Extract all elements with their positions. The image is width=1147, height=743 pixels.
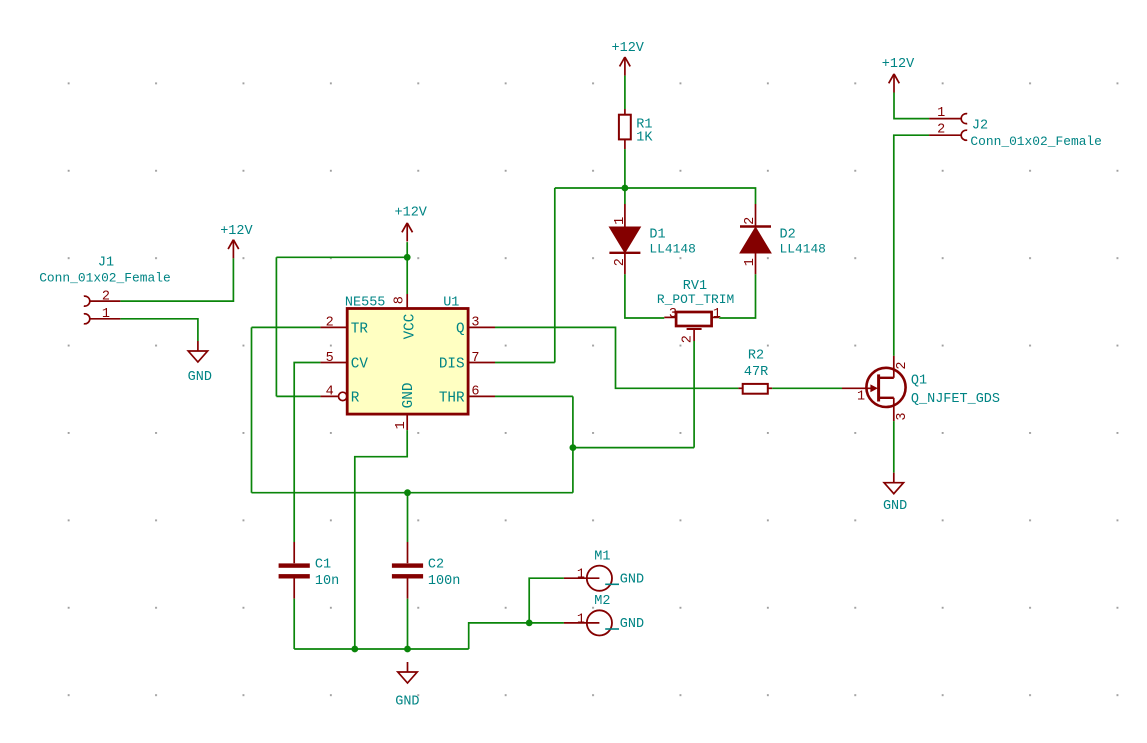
- wire THR pin: [495, 395, 573, 397]
- svg-text:47R: 47R: [744, 365, 768, 380]
- svg-text:3: 3: [895, 412, 910, 420]
- ground (below Q1): [884, 473, 903, 494]
- resistor R1: [619, 109, 631, 149]
- svg-text:Q1: Q1: [911, 374, 927, 389]
- svg-text:C1: C1: [315, 557, 331, 572]
- junction (VCC node): [404, 254, 411, 261]
- svg-text:NE555: NE555: [345, 296, 386, 311]
- wire R1 to node: [624, 149, 626, 188]
- capacitor C2: [392, 542, 423, 599]
- transistor Q1: [842, 356, 906, 421]
- +12V power symbol (center): [402, 223, 413, 242]
- wire RV1.2 wiper down: [693, 341, 695, 448]
- wire J1.1 to ground: [120, 319, 197, 341]
- svg-text:GND: GND: [188, 370, 212, 385]
- wire D1 to RV1.3: [625, 274, 664, 318]
- svg-text:R2: R2: [748, 349, 764, 364]
- wire U1 pin1 to ground bus: [355, 430, 407, 649]
- svg-text:2: 2: [743, 217, 758, 225]
- wire bottom run: [252, 492, 573, 494]
- resistor R2: [738, 384, 772, 394]
- svg-text:LL4148: LL4148: [649, 242, 695, 257]
- svg-text:1: 1: [857, 389, 865, 404]
- svg-text:C2: C2: [428, 557, 444, 572]
- svg-text:1K: 1K: [636, 131, 653, 146]
- svg-text:1: 1: [713, 307, 721, 322]
- junction (C2 ground): [404, 646, 411, 653]
- svg-text:1: 1: [577, 612, 585, 627]
- wire R2 to Q1 gate: [772, 387, 842, 389]
- svg-text:Conn_01x02_Female: Conn_01x02_Female: [39, 271, 171, 286]
- svg-text:2: 2: [895, 361, 910, 369]
- +12V power symbol (left): [228, 240, 239, 259]
- capacitor C1: [279, 542, 310, 599]
- mounting hole M1: [564, 566, 612, 591]
- svg-text:2: 2: [326, 316, 334, 331]
- wire J1.2 to +12V corner: [120, 258, 233, 301]
- svg-text:+12V: +12V: [612, 41, 645, 56]
- wire Q1 drain to J2.2: [894, 135, 929, 356]
- connector J1 pin 2 stub: [90, 300, 121, 302]
- svg-text:D1: D1: [649, 228, 665, 243]
- mounting hole M2: [564, 610, 612, 635]
- svg-text:8: 8: [393, 296, 408, 304]
- svg-text:VCC: VCC: [403, 314, 419, 340]
- svg-text:J2: J2: [972, 119, 988, 134]
- U1 pin 2 (TR): [320, 316, 368, 338]
- svg-text:M2: M2: [594, 594, 610, 609]
- svg-text:10n: 10n: [315, 574, 339, 589]
- wire C2 to ground bus: [407, 599, 409, 649]
- wire C2 branch: [407, 493, 409, 542]
- ground (below C2): [398, 662, 417, 683]
- U1 pin 6 (THR): [439, 385, 495, 407]
- svg-text:1: 1: [937, 106, 945, 121]
- svg-text:6: 6: [471, 385, 479, 400]
- U1 pin 3 (Q): [456, 316, 495, 338]
- +12V power symbol (right): [889, 74, 900, 93]
- label _GND (M2): [605, 617, 644, 632]
- connector J2 pin 2 stub: [929, 134, 961, 136]
- svg-text:+12V: +12V: [395, 206, 428, 221]
- svg-text:2: 2: [102, 289, 110, 304]
- svg-text:DIS: DIS: [439, 357, 465, 373]
- svg-text:GND: GND: [620, 573, 644, 588]
- svg-text:Conn_01x02_Female: Conn_01x02_Female: [970, 134, 1102, 149]
- wire ground bus to M2: [469, 623, 564, 649]
- wire M1 branch: [529, 578, 564, 623]
- wire VCC to R pin: [276, 395, 320, 397]
- wire +12V to U1 pin 8: [406, 242, 408, 294]
- wire Q pin to R2: [495, 327, 738, 388]
- svg-text:GND: GND: [401, 383, 417, 409]
- potentiometer RV1: [664, 312, 719, 341]
- wire C1 to ground bus: [293, 599, 295, 649]
- connector J2 pin 1 socket arc: [961, 114, 967, 124]
- wire THR riser: [572, 396, 574, 492]
- connector J2 pin 1 stub: [929, 118, 961, 120]
- U1 pin 5 (CV): [320, 351, 368, 373]
- svg-text:+12V: +12V: [220, 224, 253, 239]
- svg-text:7: 7: [471, 351, 479, 366]
- svg-text:3: 3: [471, 316, 479, 331]
- connector J2 pin 2 socket arc: [961, 130, 967, 140]
- wire wiper to THR riser: [573, 447, 694, 449]
- svg-text:LL4148: LL4148: [780, 242, 826, 257]
- svg-text:M1: M1: [594, 549, 610, 564]
- svg-text:2: 2: [937, 123, 945, 138]
- junction (C1 ground): [351, 646, 358, 653]
- svg-text:TR: TR: [351, 322, 369, 338]
- svg-text:R_POT_TRIM: R_POT_TRIM: [657, 292, 734, 307]
- svg-text:1: 1: [743, 258, 758, 266]
- op-amp U1 NE555 body: [347, 309, 468, 415]
- svg-text:GND: GND: [395, 694, 419, 709]
- connector J1 pin 1 socket arc: [84, 314, 90, 324]
- wire D2 to RV1.1: [719, 274, 755, 318]
- svg-text:U1: U1: [443, 296, 459, 311]
- U1 pin 1 (GND): [394, 383, 417, 431]
- ground (below J1): [188, 341, 207, 362]
- svg-text:2: 2: [680, 335, 695, 343]
- junction (R1/D1/D2/DIS node): [622, 185, 629, 192]
- wire VCC branch left: [276, 256, 407, 258]
- svg-text:Q_NJFET_GDS: Q_NJFET_GDS: [911, 392, 1000, 407]
- +12V power symbol (top): [620, 57, 631, 76]
- svg-text:1: 1: [613, 217, 628, 225]
- wire +12V to R1: [624, 76, 626, 109]
- wire node to D2: [625, 188, 756, 204]
- svg-text:GND: GND: [883, 499, 907, 514]
- svg-text:4: 4: [326, 385, 334, 400]
- U1 pin 4 (R, inverted): [320, 385, 359, 407]
- wire CV to C1: [294, 363, 320, 543]
- U1 pin 7 (DIS): [439, 351, 495, 373]
- svg-text:Q: Q: [456, 322, 465, 338]
- junction (C2 top node): [404, 489, 411, 496]
- U1 pin 8 (VCC): [393, 294, 419, 339]
- wire riser to DIS pin: [495, 362, 555, 364]
- wire TR pin left: [252, 326, 321, 328]
- wire node to DIS riser: [555, 187, 625, 189]
- svg-text:1: 1: [102, 307, 110, 322]
- svg-text:5: 5: [326, 351, 334, 366]
- wire node to D1: [624, 188, 626, 204]
- connector J1 pin 1 stub: [90, 318, 121, 320]
- svg-text:THR: THR: [439, 391, 465, 407]
- svg-text:1: 1: [577, 568, 585, 583]
- svg-text:R: R: [351, 391, 360, 407]
- svg-text:J1: J1: [98, 256, 114, 271]
- svg-text:D2: D2: [780, 228, 796, 243]
- diode D2: [740, 204, 771, 274]
- svg-text:2: 2: [613, 258, 628, 266]
- wire VCC branch down: [275, 257, 277, 396]
- junction (THR/wiper): [570, 444, 577, 451]
- wire J2.1 to +12V: [894, 93, 929, 119]
- connector J1 pin 2 socket arc: [84, 296, 90, 306]
- wire ground bus: [294, 648, 469, 650]
- diode D1: [609, 204, 640, 274]
- junction (M1 branch): [526, 620, 533, 627]
- svg-text:3: 3: [669, 307, 677, 322]
- svg-text:1: 1: [394, 421, 409, 429]
- wire TR down: [251, 327, 253, 492]
- svg-text:+12V: +12V: [882, 57, 915, 72]
- wire DIS riser: [554, 188, 556, 363]
- svg-text:CV: CV: [351, 357, 369, 373]
- svg-text:100n: 100n: [428, 574, 460, 589]
- label _GND (M1): [605, 573, 644, 588]
- wire Q1 source to ground: [893, 421, 895, 473]
- svg-text:GND: GND: [620, 617, 644, 632]
